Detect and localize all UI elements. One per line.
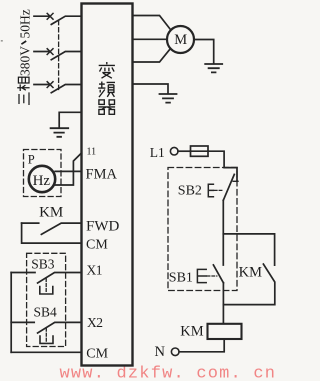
svg-text:X2: X2 — [87, 315, 103, 330]
contactor KM NO contact (left) — [22, 222, 39, 224]
SB2 fixed contact seat — [233, 180, 238, 182]
ground E2 (motor frame) — [205, 64, 222, 72]
svg-text:FMA: FMA — [86, 166, 118, 182]
svg-text:FWD: FWD — [86, 219, 120, 235]
frequency meter P dashed enclosure — [24, 150, 62, 197]
svg-text:KM: KM — [239, 265, 262, 281]
breaker QF pole 3 x-mark — [47, 82, 53, 88]
wire inverter PE terminal — [133, 84, 169, 93]
pushbutton SB3 actuator — [45, 279, 47, 293]
fuse FU — [191, 146, 209, 156]
svg-text:SB2: SB2 — [178, 183, 202, 198]
wire phase L3 input — [34, 84, 48, 86]
char 三 — [19, 92, 29, 105]
svg-text:SB4: SB4 — [34, 305, 58, 320]
svg-text:50Hz: 50Hz — [18, 9, 33, 38]
char 器 — [99, 100, 116, 114]
svg-text:KM: KM — [39, 204, 63, 220]
wire L1 to fuse — [178, 150, 191, 152]
N terminal — [171, 348, 179, 356]
wire to input ground — [59, 112, 81, 127]
svg-text:KM: KM — [180, 324, 203, 340]
pushbutton SB4 blade — [38, 322, 82, 333]
svg-text:M: M — [174, 32, 187, 48]
wire motor phase W — [133, 49, 171, 62]
breaker QF pole 1 x-mark — [47, 13, 53, 19]
contactor coil KM — [208, 324, 242, 339]
common bus wire SB3/SB4 — [10, 273, 12, 353]
wire coil to N terminal — [179, 339, 224, 352]
char 相 — [17, 77, 29, 91]
wire KM contact to CM — [22, 223, 82, 243]
breaker QF pole 1 blade — [51, 16, 81, 24]
pushbutton SB1 blade (NO) — [213, 265, 223, 283]
wire SB2 to SB1 — [222, 200, 224, 265]
svg-text:SB3: SB3 — [31, 257, 55, 272]
pushbutton station dashed enclosure (SB3 SB4) — [27, 253, 66, 346]
wire meter to terminal 11 — [55, 153, 82, 185]
svg-text:P: P — [28, 153, 35, 167]
char 、 — [21, 41, 26, 44]
KM contact blade — [41, 223, 81, 234]
pushbutton SB4 actuator — [45, 328, 47, 342]
wire SB1 to KM coil — [222, 283, 224, 324]
label 变频器 (drawn glyphs) — [98, 62, 115, 114]
breaker QF linkage (dashed) — [58, 21, 60, 91]
pushbutton SB2 blade (NC) — [223, 174, 234, 200]
svg-text:N: N — [155, 344, 166, 360]
breaker QF pole 3 blade — [51, 85, 81, 93]
breaker QF pole 2 x-mark — [47, 49, 53, 55]
pushbutton SB1 actuator — [197, 269, 206, 282]
control-station dashed enclosure (SB1 SB2) — [168, 168, 237, 291]
svg-text:L1: L1 — [150, 145, 165, 160]
wire phase L2 input — [34, 51, 48, 53]
char 变 — [99, 62, 115, 78]
ground E3 (inverter) — [160, 94, 177, 103]
wire motor phase U — [133, 16, 171, 30]
wire meter to FMA terminal — [55, 170, 81, 172]
wire bus to CM terminal — [11, 351, 81, 353]
svg-text:www. dzkfw. com. cn: www. dzkfw. com. cn — [60, 364, 277, 381]
inverter box U1 变频器 — [82, 4, 133, 366]
pushbutton SB4 left lead — [11, 321, 34, 323]
svg-text:380V: 380V — [18, 46, 33, 76]
svg-text:CM: CM — [86, 237, 108, 252]
control circuit: L1 terminal — [170, 147, 178, 155]
wire motor to ground — [194, 40, 214, 64]
scan artifacts — [1, 40, 3, 42]
svg-text:X1: X1 — [87, 263, 103, 278]
char 频 — [98, 82, 115, 98]
motor M1 circle — [167, 26, 194, 53]
pushbutton SB2 actuator — [208, 184, 213, 197]
breaker QF pole 2 blade — [51, 52, 81, 60]
frequency meter Hz circle — [29, 166, 55, 192]
pushbutton SB3 blade — [38, 273, 82, 284]
ground E1 — [51, 128, 69, 137]
svg-text:SB1: SB1 — [169, 270, 193, 285]
wire fuse to SB2 — [208, 151, 237, 181]
wire motor phase V — [133, 38, 168, 40]
pushbutton SB3 left lead — [11, 272, 35, 274]
svg-text:11: 11 — [87, 147, 97, 158]
svg-text:Hz: Hz — [33, 173, 51, 189]
svg-text:CM: CM — [86, 347, 108, 362]
wire branch to KM aux contact — [223, 234, 274, 265]
label 三相380V、50Hz (rotated) — [17, 9, 32, 105]
wire phase L1 input — [34, 15, 48, 17]
KM auxiliary contact blade — [223, 264, 274, 305]
